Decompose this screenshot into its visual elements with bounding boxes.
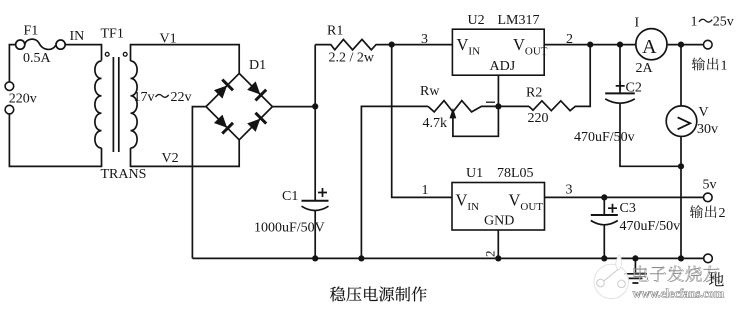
svg-text:17v: 17v bbox=[134, 90, 155, 105]
node U1 GND rail bbox=[495, 255, 501, 261]
svg-text:C2: C2 bbox=[626, 81, 642, 96]
svg-text:C1: C1 bbox=[282, 189, 298, 204]
bridge rectifier D1 outline bbox=[206, 73, 272, 139]
svg-text:5v: 5v bbox=[703, 178, 717, 193]
svg-text:U1: U1 bbox=[466, 166, 483, 181]
svg-text:IN: IN bbox=[70, 29, 85, 44]
wire ammeter to output1 bbox=[667, 44, 704, 46]
svg-text:78L05: 78L05 bbox=[497, 166, 534, 181]
node ground symbol bbox=[632, 255, 638, 261]
node R2 riser top bbox=[587, 42, 593, 48]
svg-text:22v: 22v bbox=[171, 90, 192, 105]
svg-text:TRANS: TRANS bbox=[101, 167, 147, 182]
title bbox=[330, 287, 345, 302]
svg-text:470uF/50v: 470uF/50v bbox=[574, 130, 635, 145]
node C2 top bbox=[617, 42, 623, 48]
svg-text:D1: D1 bbox=[249, 58, 266, 73]
voltmeter V bbox=[666, 106, 697, 137]
svg-text:GND: GND bbox=[484, 214, 514, 229]
wire fuse to transformer bbox=[65, 45, 101, 61]
node C1 ground bbox=[312, 255, 318, 261]
C2 plus sign bbox=[616, 81, 625, 90]
transformer TF1 primary winding bbox=[95, 61, 102, 148]
transformer TF1 secondary winding bbox=[131, 61, 138, 148]
node voltmeter riser top bbox=[678, 42, 684, 48]
transformer phase dot secondary bbox=[123, 52, 127, 56]
terminal output2 bbox=[704, 193, 713, 202]
C3 plus sign bbox=[608, 204, 617, 213]
svg-text:2.2 / 2w: 2.2 / 2w bbox=[329, 51, 375, 66]
svg-text:TF1: TF1 bbox=[101, 27, 124, 42]
fuse F1 bbox=[16, 39, 66, 49]
resistor R1 bbox=[315, 39, 452, 49]
svg-text:1: 1 bbox=[422, 183, 429, 198]
potentiometer Rw bbox=[428, 101, 529, 112]
wire C2 riser bbox=[619, 45, 621, 93]
ground symbol bbox=[624, 258, 647, 283]
wire C1 to rail bbox=[314, 211, 316, 259]
wire voltmeter riser bbox=[680, 45, 682, 259]
wire C3 to rail bbox=[603, 225, 605, 259]
wire V1 secondary top to bridge bbox=[131, 45, 240, 74]
C1 plus sign bbox=[318, 188, 327, 197]
svg-text:3: 3 bbox=[421, 32, 428, 47]
svg-text:2A: 2A bbox=[636, 61, 654, 76]
svg-text:25v: 25v bbox=[713, 15, 734, 30]
Rw wiper arrow bbox=[450, 108, 457, 119]
svg-text:Rw: Rw bbox=[420, 84, 440, 99]
svg-text:0.5A: 0.5A bbox=[23, 51, 52, 66]
svg-text:4.7k: 4.7k bbox=[423, 116, 448, 131]
diode D1 top-right bbox=[246, 80, 267, 101]
svg-text:1: 1 bbox=[721, 58, 728, 73]
transformer core bbox=[113, 57, 118, 152]
svg-text:U2: U2 bbox=[468, 13, 485, 28]
diode D1 bottom-right bbox=[246, 112, 267, 133]
wire C3 riser bbox=[603, 197, 605, 214]
wire U1 VOUT to output2 bbox=[545, 196, 704, 198]
wire U1 GND pin bbox=[497, 230, 499, 258]
wire AC bottom to transformer bbox=[9, 114, 101, 166]
svg-text:1: 1 bbox=[691, 15, 698, 30]
svg-text:F1: F1 bbox=[24, 24, 39, 39]
svg-text:LM317: LM317 bbox=[498, 13, 540, 28]
watermark text bbox=[634, 266, 720, 282]
ammeter A bbox=[636, 29, 667, 60]
svg-text:I: I bbox=[635, 16, 640, 31]
svg-text:220v: 220v bbox=[9, 92, 37, 107]
svg-text:470uF/50v: 470uF/50v bbox=[620, 219, 681, 234]
node Rw ground bbox=[358, 255, 364, 261]
node C3 ground bbox=[601, 255, 607, 261]
label ground bbox=[709, 272, 724, 286]
label output2 bbox=[690, 205, 703, 218]
wire ground rail bbox=[192, 257, 703, 259]
svg-text:220: 220 bbox=[528, 111, 549, 126]
svg-text:30v: 30v bbox=[697, 122, 718, 137]
svg-text:C3: C3 bbox=[620, 201, 636, 216]
wire R1 node to U1 VIN bbox=[392, 45, 452, 198]
capacitor C2 bbox=[605, 93, 635, 103]
svg-text:www.elecfans.com: www.elecfans.com bbox=[633, 287, 725, 301]
wire C1 riser top bbox=[314, 45, 316, 200]
node C3 top bbox=[601, 194, 607, 200]
svg-text:V2: V2 bbox=[162, 151, 179, 166]
wire C2 to voltmeter line bbox=[620, 103, 681, 166]
wire Rw wiper loop bbox=[453, 106, 499, 136]
svg-text:3: 3 bbox=[566, 183, 573, 198]
svg-text:2: 2 bbox=[719, 206, 726, 221]
wire U2 ADJ pin bbox=[497, 75, 499, 106]
svg-text:R2: R2 bbox=[526, 86, 542, 101]
transformer phase dot primary bbox=[105, 52, 109, 56]
terminal output1 bbox=[704, 40, 713, 49]
diode D1 bottom-left bbox=[213, 113, 234, 134]
watermark logo bbox=[594, 255, 628, 299]
svg-text:1000uF/50V: 1000uF/50V bbox=[254, 221, 325, 236]
wire V2 secondary bottom to bridge bbox=[131, 140, 240, 167]
capacitor C3 bbox=[591, 215, 618, 225]
wire Rw ground riser bbox=[361, 106, 428, 258]
capacitor C1 bbox=[302, 201, 329, 211]
node bridge+/C1/R1 bbox=[312, 103, 318, 109]
terminal AC input bottom bbox=[5, 105, 14, 114]
label output1 bbox=[692, 57, 705, 70]
minus tick bbox=[486, 101, 495, 103]
wire U2 VOUT to ammeter bbox=[544, 44, 636, 46]
node ADJ junction bbox=[495, 103, 501, 109]
node C2 bottom bbox=[678, 163, 684, 169]
svg-text:ADJ: ADJ bbox=[490, 59, 516, 74]
svg-text:A: A bbox=[642, 36, 657, 58]
node R1 out bbox=[389, 42, 395, 48]
node voltmeter ground bbox=[678, 255, 684, 261]
terminal AC input top bbox=[5, 82, 14, 91]
wire bridge positive to C1 node bbox=[272, 106, 315, 108]
resistor R2 bbox=[529, 45, 590, 111]
diode D1 top-left bbox=[213, 79, 234, 100]
svg-text:2: 2 bbox=[483, 251, 498, 258]
op-amp U1 78L05 box bbox=[452, 183, 545, 231]
svg-text:R1: R1 bbox=[327, 24, 343, 39]
terminal ground bbox=[704, 254, 713, 263]
wire bridge negative to ground rail bbox=[192, 107, 206, 259]
wire left input riser bbox=[9, 45, 15, 82]
op-amp U2 LM317 box bbox=[452, 29, 544, 75]
svg-text:V: V bbox=[699, 105, 709, 120]
